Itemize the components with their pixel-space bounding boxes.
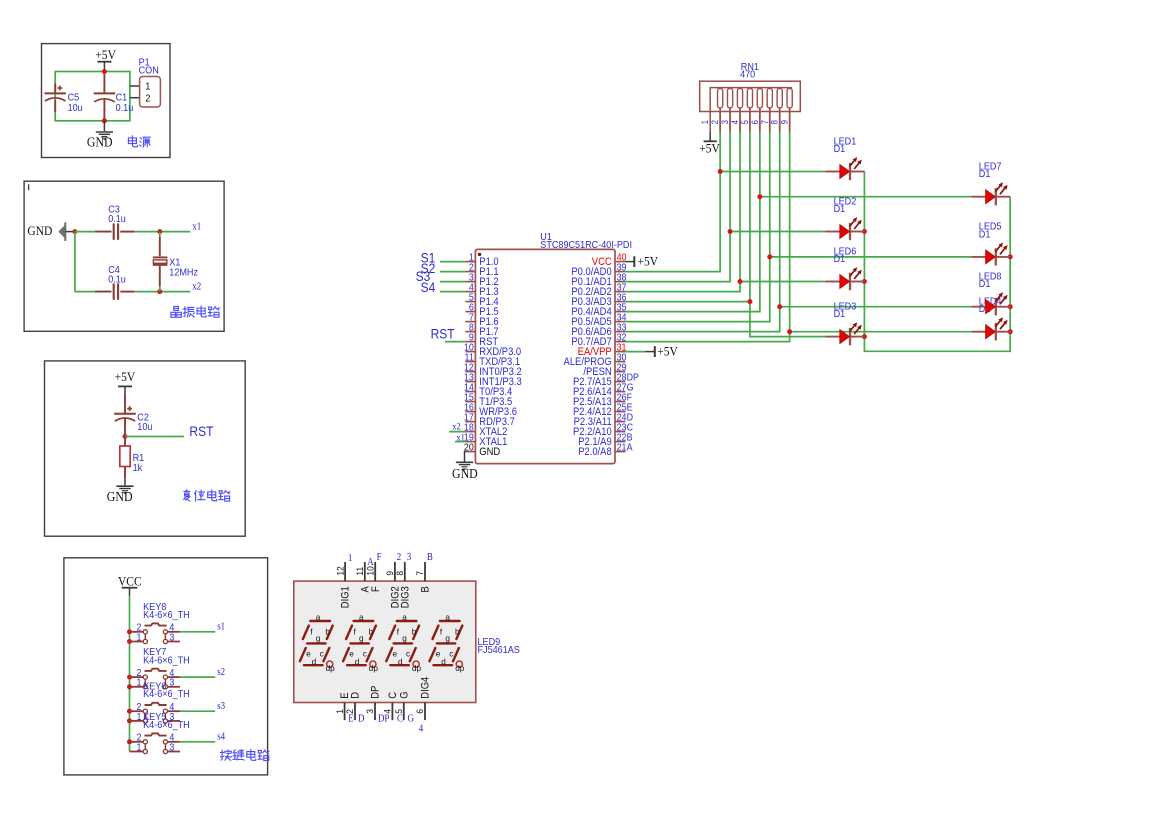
svg-text:DIG4: DIG4 — [420, 676, 432, 698]
svg-text:D1: D1 — [834, 204, 846, 216]
svg-text:e: e — [306, 650, 311, 659]
svg-text:c: c — [320, 650, 324, 659]
svg-text:c: c — [406, 650, 410, 659]
svg-text:4: 4 — [419, 724, 424, 735]
svg-text:dp: dp — [369, 664, 379, 673]
svg-text:7: 7 — [415, 571, 426, 576]
svg-text:d: d — [398, 657, 403, 666]
svg-text:B: B — [420, 586, 432, 593]
svg-text:DIG1: DIG1 — [340, 586, 352, 608]
svg-text:12: 12 — [335, 566, 346, 575]
svg-text:dp: dp — [412, 664, 422, 673]
svg-text:2: 2 — [145, 93, 150, 105]
svg-text:FJ5461AS: FJ5461AS — [478, 644, 520, 656]
svg-text:g: g — [402, 634, 407, 643]
svg-text:b: b — [455, 628, 460, 637]
svg-text:21: 21 — [617, 442, 627, 454]
svg-text:3: 3 — [407, 553, 412, 564]
svg-text:11: 11 — [355, 567, 366, 576]
svg-text:D: D — [358, 714, 365, 725]
svg-text:8: 8 — [395, 571, 406, 576]
svg-text:RST: RST — [431, 326, 455, 342]
svg-text:470: 470 — [740, 69, 755, 81]
svg-text:GND: GND — [479, 447, 500, 459]
svg-text:STC89C51RC-40I-PDI: STC89C51RC-40I-PDI — [540, 240, 632, 252]
svg-text:12MHz: 12MHz — [169, 267, 198, 279]
svg-text:P2.0/A8: P2.0/A8 — [578, 447, 612, 459]
svg-text:VCC: VCC — [118, 574, 142, 589]
svg-text:1: 1 — [348, 554, 353, 565]
svg-text:D1: D1 — [834, 254, 846, 266]
svg-text:c: c — [363, 650, 367, 659]
svg-text:3: 3 — [169, 742, 174, 754]
svg-text:1: 1 — [145, 81, 150, 93]
svg-text:A: A — [627, 442, 634, 454]
svg-text:B: B — [427, 553, 433, 564]
svg-text:D1: D1 — [979, 279, 991, 291]
svg-text:x2: x2 — [452, 421, 460, 432]
svg-text:1: 1 — [136, 711, 141, 723]
svg-text:+5V: +5V — [638, 254, 659, 269]
svg-text:+5V: +5V — [657, 344, 678, 359]
svg-text:1: 1 — [136, 742, 141, 754]
svg-text:dp: dp — [326, 664, 336, 673]
svg-text:10u: 10u — [68, 102, 83, 114]
svg-text:1: 1 — [334, 709, 345, 714]
svg-text:b: b — [412, 628, 417, 637]
svg-text:a: a — [359, 613, 364, 622]
svg-text:2: 2 — [397, 553, 402, 564]
svg-text:d: d — [312, 657, 317, 666]
svg-text:1: 1 — [136, 677, 141, 689]
svg-text:a: a — [316, 613, 321, 622]
svg-text:C: C — [397, 714, 403, 725]
svg-text:D1: D1 — [834, 144, 846, 156]
svg-text:s3: s3 — [217, 702, 225, 713]
svg-text:e: e — [436, 650, 441, 659]
svg-text:d: d — [355, 657, 360, 666]
svg-text:CON: CON — [139, 65, 159, 77]
svg-text:D1: D1 — [834, 309, 846, 321]
svg-text:e: e — [393, 650, 398, 659]
svg-text:6: 6 — [415, 709, 426, 714]
svg-text:A: A — [367, 558, 374, 569]
svg-text:b: b — [325, 628, 330, 637]
svg-text:DIG3: DIG3 — [400, 586, 412, 608]
svg-text:K4-6×6_TH: K4-6×6_TH — [143, 720, 190, 732]
svg-text:0.1u: 0.1u — [116, 102, 134, 114]
svg-text:K4-6×6_TH: K4-6×6_TH — [143, 689, 190, 701]
svg-text:+5V: +5V — [95, 48, 116, 63]
svg-text:DP: DP — [370, 685, 382, 698]
svg-text:g: g — [359, 634, 364, 643]
svg-text:b: b — [369, 628, 374, 637]
svg-text:GND: GND — [87, 135, 113, 150]
svg-text:s2: s2 — [217, 668, 225, 679]
svg-text:g: g — [445, 634, 450, 643]
svg-text:D: D — [350, 692, 362, 699]
svg-text:3: 3 — [169, 677, 174, 689]
svg-text:0.1u: 0.1u — [108, 213, 126, 225]
svg-text:D1: D1 — [979, 229, 991, 241]
svg-text:a: a — [445, 613, 450, 622]
svg-text:e: e — [349, 650, 354, 659]
svg-text:x1: x1 — [192, 222, 201, 233]
svg-text:c: c — [449, 650, 453, 659]
svg-text:RST: RST — [189, 424, 213, 440]
svg-text:a: a — [402, 613, 407, 622]
svg-text:3: 3 — [365, 709, 376, 714]
svg-text:F: F — [377, 553, 382, 564]
svg-text:10u: 10u — [137, 422, 152, 434]
svg-text:GND: GND — [27, 224, 52, 239]
svg-text:D1: D1 — [979, 169, 991, 181]
svg-text:E: E — [348, 714, 354, 725]
svg-text:1: 1 — [136, 632, 141, 644]
svg-text:GND: GND — [452, 466, 478, 481]
svg-text:x2: x2 — [192, 282, 201, 293]
svg-text:1k: 1k — [133, 462, 143, 474]
svg-text:K4-6×6_TH: K4-6×6_TH — [143, 610, 190, 622]
svg-text:+5V: +5V — [115, 369, 136, 384]
svg-text:s1: s1 — [217, 622, 225, 633]
svg-text:3: 3 — [169, 632, 174, 644]
svg-text:K4-6×6_TH: K4-6×6_TH — [143, 655, 190, 667]
svg-text:d: d — [441, 657, 446, 666]
svg-text:0.1u: 0.1u — [108, 274, 126, 286]
svg-text:G: G — [408, 714, 415, 725]
svg-text:s4: s4 — [217, 732, 225, 743]
svg-text:G: G — [399, 691, 411, 699]
svg-text:+5V: +5V — [699, 141, 720, 156]
svg-text:DP: DP — [378, 714, 389, 725]
svg-text:x1: x1 — [456, 432, 464, 443]
svg-text:GND: GND — [107, 489, 133, 504]
svg-text:9: 9 — [779, 120, 790, 125]
svg-text:F: F — [370, 586, 382, 592]
svg-text:S4: S4 — [421, 279, 436, 295]
svg-text:g: g — [316, 634, 321, 643]
svg-text:C: C — [388, 692, 400, 699]
svg-text:dp: dp — [455, 664, 465, 673]
